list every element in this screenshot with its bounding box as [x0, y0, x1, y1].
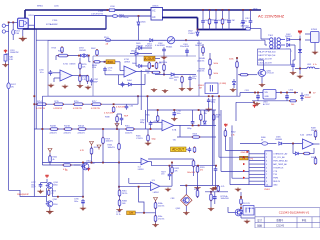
wire: [264, 40, 266, 45]
wire: [305, 33, 311, 35]
svg-text:1N400B: 1N400B: [275, 139, 283, 141]
wire: [240, 143, 262, 145]
wire: [120, 70, 124, 72]
wire: [42, 162, 141, 164]
svg-text:C21343: C21343: [276, 226, 285, 228]
wire: [53, 72, 61, 74]
svg-text:L302: L302: [307, 64, 311, 66]
wire: [46, 179, 48, 183]
svg-text:4.7u: 4.7u: [313, 64, 317, 66]
junction: [91, 162, 93, 164]
junction: [33, 103, 35, 105]
wire: [119, 62, 121, 71]
wire: [171, 173, 173, 186]
svg-text:8: 8: [266, 178, 267, 180]
power symbol: [224, 123, 227, 127]
ground: [2, 63, 8, 67]
wire: [52, 188, 54, 197]
svg-text:R320B: R320B: [50, 126, 57, 128]
svg-text:I2C_VOL_AD: I2C_VOL_AD: [273, 156, 285, 159]
ground: [161, 56, 167, 60]
wire: [74, 164, 80, 166]
wire: [250, 10, 252, 19]
diode: [239, 211, 242, 214]
resistor: [58, 54, 69, 57]
svg-text:CN601: CN601: [152, 6, 159, 8]
capacitor: [173, 111, 177, 117]
wire: [41, 96, 43, 165]
junction: [192, 125, 194, 127]
junction: [102, 162, 104, 164]
svg-text:200: 200: [291, 104, 294, 106]
wire: [80, 75, 88, 77]
svg-text:R602: R602: [91, 48, 96, 50]
wire: [208, 104, 210, 108]
capacitor: [207, 98, 211, 104]
junction: [198, 109, 200, 111]
svg-text:100u: 100u: [177, 113, 181, 115]
wire: [155, 208, 157, 216]
svg-text:A-OUT: A-OUT: [144, 57, 155, 61]
junction: [169, 165, 171, 167]
capacitor: [39, 183, 43, 189]
junction: [157, 109, 159, 111]
capacitor: [291, 62, 295, 68]
svg-text:100k/50B: 100k/50B: [221, 198, 230, 200]
capacitor: [241, 19, 245, 25]
wire: [92, 56, 94, 96]
junction: [118, 162, 120, 164]
op-amp: [124, 66, 136, 78]
diode: [137, 22, 140, 25]
wire: [209, 10, 211, 19]
resistor R406: [262, 142, 268, 145]
junction: [240, 196, 242, 198]
junction: [12, 22, 14, 24]
ground: [179, 87, 185, 91]
svg-text:4.7k/0.5W: 4.7k/0.5W: [116, 107, 125, 109]
svg-text:0.1u: 0.1u: [108, 70, 112, 72]
wire: [8, 22, 10, 190]
junction: [82, 196, 84, 198]
resistor: [102, 137, 105, 144]
wire: [79, 58, 81, 63]
wire: [137, 96, 139, 104]
wire: [260, 29, 262, 39]
svg-text:C5B43A: C5B43A: [247, 207, 255, 210]
wire: [215, 166, 217, 167]
svg-text:Q302: Q302: [86, 160, 91, 162]
wire: [193, 166, 195, 176]
resistor: [93, 61, 100, 63]
junction: [212, 95, 214, 97]
junction: [215, 9, 217, 11]
inductor L302: [307, 67, 315, 69]
svg-text:4: 4: [266, 164, 267, 166]
ground: [145, 142, 151, 146]
svg-text:8050: 8050: [53, 185, 57, 187]
diode: [287, 38, 290, 41]
svg-text:PWM: PWM: [273, 178, 278, 180]
wire pin stub: [249, 170, 265, 172]
net label highlight: [127, 211, 136, 215]
wire: [23, 28, 35, 30]
resistor: [196, 190, 199, 198]
wire: [42, 164, 84, 166]
resistor: [78, 128, 87, 131]
diode: [171, 73, 174, 76]
junction: [202, 9, 204, 11]
wire: [315, 156, 317, 158]
svg-text:R409: R409: [311, 157, 316, 159]
wire: [193, 159, 195, 161]
wire: [163, 70, 165, 74]
wire: [236, 67, 238, 96]
wire: [136, 47, 152, 49]
resistor: [236, 61, 239, 68]
ground: [46, 210, 53, 215]
wire: [126, 103, 128, 105]
op-amp: [60, 70, 72, 82]
fuse H204: [113, 15, 118, 18]
junction: [253, 101, 255, 103]
capacitor: [185, 48, 189, 54]
svg-text:6: 6: [266, 171, 267, 173]
wire: [12, 35, 14, 40]
wire: [232, 177, 249, 179]
transistor: [46, 183, 53, 189]
wire: [121, 122, 123, 125]
transistor: [81, 163, 89, 170]
junction: [222, 9, 224, 11]
wire: [222, 24, 224, 30]
capacitor: [149, 121, 153, 127]
wire: [155, 202, 157, 203]
resistor: [202, 46, 205, 53]
svg-text:1N: 1N: [11, 87, 14, 89]
svg-text:22k: 22k: [174, 79, 177, 81]
svg-text:R315: R315: [125, 126, 130, 128]
capacitor: [249, 19, 253, 25]
junction: [82, 162, 84, 164]
diode: [139, 64, 142, 67]
capacitor: [201, 19, 205, 25]
op-amp: [303, 139, 314, 150]
wire: [36, 39, 265, 41]
wire: [209, 24, 211, 30]
wire: [301, 93, 303, 96]
resistor: [54, 103, 64, 106]
wire: [47, 72, 50, 74]
resistor: [116, 116, 119, 123]
wire: [261, 77, 263, 83]
wire: [55, 56, 57, 60]
svg-text:C54007: C54007: [188, 33, 195, 35]
svg-text:GND: GND: [265, 96, 270, 98]
svg-text:C30: C30: [130, 106, 133, 108]
junction: [185, 185, 187, 187]
svg-text:IC701: IC701: [63, 64, 68, 66]
wire: [117, 113, 122, 115]
wire: [221, 170, 249, 172]
wire: [293, 153, 304, 155]
svg-text:22k/1%: 22k/1%: [158, 206, 165, 208]
wire: [197, 197, 199, 199]
resistor: [147, 134, 150, 141]
wire: [102, 143, 104, 162]
junction: [242, 9, 244, 11]
wire: [192, 124, 194, 126]
svg-text:1N4148: 1N4148: [136, 46, 143, 48]
svg-text:L304 1-02.0mH: L304 1-02.0mH: [259, 62, 273, 64]
photocoupler PC301: [181, 195, 192, 206]
wire: [294, 45, 296, 60]
fuse R601: [105, 39, 110, 42]
wire: [315, 137, 317, 140]
junction: [228, 9, 230, 11]
svg-text:IC40: IC40: [300, 135, 304, 137]
transformer T301: [267, 37, 285, 52]
svg-text:C605: C605: [217, 20, 222, 22]
svg-text:0.22R/7W: 0.22R/7W: [73, 108, 82, 110]
svg-text:680p: 680p: [211, 102, 215, 104]
resistor: [181, 76, 184, 83]
wire: [314, 143, 320, 145]
wire: [25, 9, 151, 11]
wire: [197, 172, 199, 186]
svg-text:D604: D604: [132, 63, 137, 65]
ground: [37, 190, 43, 194]
resistor: [154, 215, 157, 222]
svg-text:C311: C311: [245, 90, 249, 92]
svg-text:680p: 680p: [140, 122, 144, 124]
svg-text:27k/1%: 27k/1%: [158, 219, 165, 221]
junction: [208, 95, 210, 97]
resistor: [91, 103, 101, 106]
power flag: [90, 142, 94, 147]
svg-text:100u: 100u: [74, 201, 78, 203]
connector CN301: [265, 151, 272, 187]
svg-text:680p: 680p: [187, 128, 191, 130]
resistor: [154, 202, 157, 209]
wire: [197, 186, 199, 191]
wire: [129, 182, 151, 184]
wire: [293, 59, 295, 61]
module outline: [48, 41, 199, 97]
wire: [121, 114, 123, 116]
resistor: [224, 130, 227, 137]
svg-text:2u: 2u: [245, 20, 247, 22]
wire: [174, 124, 216, 126]
op-amp: [141, 158, 148, 165]
svg-text:GND: GND: [241, 152, 246, 154]
wire: [185, 206, 187, 211]
junction: [240, 207, 242, 209]
junction: [8, 22, 10, 24]
ground: [254, 102, 260, 106]
regulator U301: [263, 90, 276, 100]
wire: [204, 110, 206, 121]
wire: [130, 53, 152, 55]
X-capacitor C702: [109, 9, 114, 12]
ground: [116, 208, 122, 212]
svg-text:100k/1%: 100k/1%: [106, 141, 114, 143]
wire: [233, 85, 235, 89]
flag: [115, 124, 119, 129]
wire: [292, 60, 294, 62]
wire: [179, 125, 181, 137]
ground: [187, 87, 193, 91]
resistor: [79, 62, 82, 69]
wire: [49, 207, 51, 210]
wire: [157, 110, 159, 116]
relay K201: [18, 18, 29, 29]
svg-text:R716: R716: [74, 101, 79, 103]
wire: [202, 24, 204, 30]
svg-text:C21343-DL02/MAIN-V1: C21343-DL02/MAIN-V1: [279, 211, 310, 215]
junction: [197, 29, 199, 31]
wire: [192, 110, 194, 120]
resistor: [163, 64, 166, 71]
wire: [202, 10, 204, 19]
svg-text:1N4007W: 1N4007W: [10, 52, 19, 54]
svg-text:1: 1: [266, 154, 267, 156]
wire: [219, 156, 249, 158]
ground: [152, 223, 158, 227]
resistor: [86, 75, 89, 82]
wire pin stub: [249, 180, 265, 182]
note table: [258, 49, 291, 65]
svg-text:220u/400V: 220u/400V: [180, 46, 190, 48]
wire: [87, 82, 89, 85]
resistor: [148, 62, 151, 69]
svg-text:26/1%: 26/1%: [122, 193, 128, 195]
wire: [209, 65, 211, 69]
svg-text:1N4007: 1N4007: [305, 97, 312, 99]
resistor: [193, 147, 196, 153]
ground: [80, 207, 86, 211]
pin marks: [243, 156, 245, 158]
wire: [145, 110, 147, 129]
wire: [147, 140, 149, 143]
wire: [169, 178, 171, 180]
svg-text:B601: B601: [107, 60, 114, 64]
wire: [214, 200, 216, 204]
wire: [215, 24, 217, 30]
svg-text:100k/2%: 100k/2%: [108, 147, 116, 149]
svg-text:0.22R/7W: 0.22R/7W: [91, 108, 100, 110]
wire: [147, 96, 149, 122]
wire: [34, 128, 162, 130]
svg-text:100u/16V: 100u/16V: [187, 172, 196, 174]
junction: [309, 92, 311, 94]
junction: [88, 55, 90, 57]
svg-text:4M: 4M: [199, 88, 202, 90]
capacitor: [256, 94, 260, 100]
svg-text:470: 470: [161, 174, 164, 176]
wire: [286, 99, 288, 101]
wire: [218, 96, 220, 157]
ground: [212, 186, 218, 190]
svg-text:220k/2%: 220k/2%: [78, 132, 86, 134]
wire: [100, 61, 106, 63]
wire: [215, 10, 217, 19]
svg-text:DTC143: DTC143: [267, 73, 274, 75]
capacitor: [120, 116, 124, 122]
resistor: [96, 49, 99, 56]
resistor: [125, 128, 134, 131]
svg-text:K27A40NW: K27A40NW: [46, 23, 58, 26]
fuse F201: [12, 30, 15, 35]
diode: [135, 52, 138, 55]
svg-text:22k/1%: 22k/1%: [311, 130, 318, 132]
wire: [214, 192, 216, 195]
wire: [209, 75, 211, 79]
wire: [93, 55, 196, 57]
wire: [22, 28, 24, 30]
svg-text:R313: R313: [193, 134, 198, 136]
resistor: [64, 128, 73, 131]
wire: [217, 190, 219, 193]
ground: [62, 85, 68, 89]
junction: [299, 68, 301, 70]
svg-text:T40: T40: [173, 140, 176, 142]
wire: [220, 110, 222, 171]
junction: [250, 9, 252, 11]
regulator U302 K7805: [311, 32, 320, 43]
wire: [283, 143, 303, 145]
wire: [185, 186, 187, 195]
wire: [155, 58, 160, 60]
diode: [203, 121, 206, 124]
wire: [251, 28, 262, 30]
wire: [235, 102, 237, 121]
svg-text:D607: D607: [131, 51, 136, 53]
wire: [72, 75, 80, 77]
ground: [206, 108, 212, 112]
svg-text:10k: 10k: [146, 73, 149, 75]
svg-text:(3.58M): (3.58M): [220, 83, 227, 85]
junction: [209, 9, 211, 11]
ground: [312, 51, 318, 55]
ground: [230, 88, 236, 92]
wire: [106, 15, 151, 17]
wire: [136, 71, 160, 73]
svg-text:2N60(B)/RJP: 2N60(B)/RJP: [17, 194, 29, 196]
junction: [299, 39, 301, 41]
svg-text:R702: R702: [58, 51, 63, 53]
wire: [163, 60, 165, 65]
svg-text:LM358: LM358: [124, 62, 130, 64]
wire: [210, 200, 212, 207]
capacitor: [81, 199, 85, 205]
power symbol: [45, 174, 48, 178]
ground: [183, 211, 189, 215]
svg-text:220k: 220k: [92, 67, 96, 69]
wire: [148, 161, 151, 163]
svg-text:T301: T301: [268, 35, 274, 37]
wire: [181, 82, 183, 87]
svg-text:100k/1%: 100k/1%: [197, 60, 205, 62]
wire: [198, 29, 251, 31]
junction: [210, 191, 212, 193]
svg-text:220k/2%: 220k/2%: [64, 132, 72, 134]
connector CN302: [243, 206, 254, 216]
svg-text:GND: GND: [273, 184, 278, 186]
wire: [197, 18, 199, 30]
wire: [118, 149, 120, 162]
wire: [136, 65, 153, 67]
